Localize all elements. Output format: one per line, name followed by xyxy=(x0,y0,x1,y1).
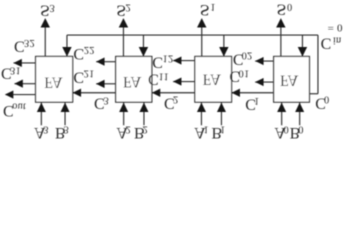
arrowhead down into U0 top xyxy=(298,47,307,56)
wire: carry output C02 of U0 xyxy=(255,60,274,62)
full adder U1 (FA box, bit 1) xyxy=(195,56,232,102)
wire: sum S2 output xyxy=(122,27,124,57)
wire: sum S1 output xyxy=(201,27,203,57)
label C0 (flipped) xyxy=(315,94,326,111)
label = 0 (flipped) xyxy=(328,22,343,34)
svg-text:02: 02 xyxy=(242,50,253,61)
wire: carry output C12 of U1 xyxy=(173,60,195,62)
arrowhead left C12 xyxy=(173,56,181,64)
label FA (flipped) inside U2 xyxy=(123,73,142,90)
label S2 (flipped) xyxy=(116,2,126,20)
wire: sum S3 output xyxy=(44,27,46,57)
label C2 (flipped) xyxy=(164,94,175,111)
label C02 (flipped) xyxy=(233,50,244,67)
wire: input A0 xyxy=(281,102,283,125)
svg-text:0: 0 xyxy=(284,124,289,135)
arrowhead up S1 xyxy=(197,18,206,27)
label B3 (flipped) xyxy=(55,124,66,141)
arrowhead left Cout xyxy=(5,90,13,98)
svg-text:C: C xyxy=(148,70,159,87)
wire: bus drop into U0 xyxy=(301,35,303,56)
wire: sum S0 output xyxy=(280,27,282,57)
svg-text:FA: FA xyxy=(123,73,142,90)
wire: carry output C01 of U0 xyxy=(255,81,274,83)
label A3 (flipped) xyxy=(34,124,46,141)
label B1 (flipped) xyxy=(211,124,222,141)
label C12 (flipped) xyxy=(152,54,163,71)
wire: carry C1 xyxy=(232,92,274,94)
arrowhead up A1 xyxy=(197,103,206,112)
arrowhead up S2 xyxy=(119,18,128,27)
label C21 (flipped) xyxy=(73,68,84,85)
arrowhead left C32 xyxy=(13,59,21,67)
svg-text:1: 1 xyxy=(220,124,225,135)
label C1 (flipped) xyxy=(245,96,256,113)
svg-text:0: 0 xyxy=(287,1,292,12)
svg-text:32: 32 xyxy=(24,37,35,48)
wire: bus drop into U2 xyxy=(142,35,144,56)
wire: input B0 xyxy=(299,102,301,125)
svg-text:C: C xyxy=(152,54,163,71)
svg-text:= 0: = 0 xyxy=(328,22,343,34)
arrowhead left C01 xyxy=(255,78,263,86)
arrowhead up B0 xyxy=(295,103,304,112)
svg-text:22: 22 xyxy=(84,44,95,55)
arrowhead left carry C1 xyxy=(232,89,240,97)
wire: carry output C32 of U3 xyxy=(13,62,35,64)
wire: input A2 xyxy=(123,102,125,125)
svg-text:1: 1 xyxy=(203,124,208,135)
svg-text:1: 1 xyxy=(210,1,215,12)
wire: Cin into U0 right edge xyxy=(309,93,318,95)
wire: input A1 xyxy=(200,102,202,125)
wire: bus left drop into U3 xyxy=(66,35,68,56)
arrowhead up S0 xyxy=(276,18,285,27)
svg-text:1: 1 xyxy=(254,95,259,106)
label C22 (flipped) xyxy=(73,45,84,62)
arrowhead left C02 xyxy=(255,57,263,65)
full adder U2 (FA box, bit 2) xyxy=(116,56,152,102)
label FA (flipped) inside U1 xyxy=(203,71,222,88)
arrowhead left C21 xyxy=(96,80,104,88)
arrowhead up A2 xyxy=(119,103,128,112)
wire: bus drop into U1 xyxy=(223,35,225,56)
full adder U3 (FA box, bit 3) xyxy=(36,56,73,102)
arrowhead down into U3 top xyxy=(62,47,71,56)
svg-text:2: 2 xyxy=(143,124,148,135)
label B0 (flipped) xyxy=(290,124,301,141)
wire: input B3 xyxy=(64,102,66,125)
wire: carry C2 xyxy=(152,92,195,94)
svg-text:11: 11 xyxy=(158,70,168,81)
svg-text:2: 2 xyxy=(125,1,130,12)
svg-text:FA: FA xyxy=(280,71,299,88)
arrowhead left C11 xyxy=(173,77,181,85)
svg-text:FA: FA xyxy=(44,74,63,91)
label C31 (flipped) xyxy=(1,65,12,82)
svg-text:3: 3 xyxy=(43,124,48,135)
svg-text:C: C xyxy=(73,68,84,85)
arrowhead up A3 xyxy=(37,103,46,112)
svg-text:3: 3 xyxy=(103,94,108,105)
arrowhead up S3 xyxy=(41,18,50,27)
wire: carry output C11 of U1 xyxy=(173,81,195,83)
svg-text:2: 2 xyxy=(173,94,178,105)
wire: carry output C21 of U2 xyxy=(96,83,116,85)
arrowhead up B1 xyxy=(217,103,226,112)
svg-text:01: 01 xyxy=(239,67,250,78)
arrowhead left C22 xyxy=(96,58,104,66)
label S0 (flipped) xyxy=(277,1,287,19)
label B2 (flipped) xyxy=(134,124,145,141)
svg-text:0: 0 xyxy=(324,94,329,105)
svg-text:2: 2 xyxy=(126,124,131,135)
label Cin (flipped) xyxy=(321,34,332,51)
arrowhead down into U1 top xyxy=(219,47,228,56)
label S3 (flipped) xyxy=(40,2,50,20)
svg-text:21: 21 xyxy=(84,68,95,79)
svg-text:S: S xyxy=(277,1,287,19)
label Cout (flipped) xyxy=(3,102,14,119)
label FA (flipped) inside U3 xyxy=(44,74,63,91)
arrowhead up B2 xyxy=(139,103,148,112)
arrowhead up B3 xyxy=(61,103,70,112)
svg-text:in: in xyxy=(333,34,342,45)
label S1 (flipped) xyxy=(200,1,210,19)
label A0 (flipped) xyxy=(274,124,286,141)
wire: carry output C31 of U3 xyxy=(14,83,35,85)
arrowhead left carry C2 xyxy=(152,89,160,97)
wire: carry output C22 of U2 xyxy=(96,61,116,63)
svg-text:C: C xyxy=(73,45,84,62)
svg-text:12: 12 xyxy=(163,53,174,64)
svg-text:31: 31 xyxy=(10,65,21,76)
wire: input B1 xyxy=(220,102,222,125)
svg-text:out: out xyxy=(12,100,26,111)
arrowhead left carry C3 xyxy=(73,89,81,97)
wire: carry-in bus horizontal xyxy=(67,34,318,36)
arrowhead up A0 xyxy=(277,103,286,112)
label FA (flipped) inside U0 xyxy=(280,71,299,88)
svg-text:FA: FA xyxy=(203,71,222,88)
wire: input A3 xyxy=(40,102,42,125)
wire: carry C3 xyxy=(73,92,116,94)
svg-text:0: 0 xyxy=(298,124,303,135)
arrowhead down into U2 top xyxy=(139,47,148,56)
label A2 (flipped) xyxy=(116,124,128,141)
wire: carry out Cout xyxy=(5,94,35,96)
label C11 (flipped) xyxy=(148,70,159,87)
svg-text:S: S xyxy=(200,1,210,19)
wire: bus right vertical (Cin) xyxy=(317,35,319,94)
svg-text:C: C xyxy=(321,34,332,51)
svg-text:3: 3 xyxy=(49,2,54,13)
wire: input B2 xyxy=(143,102,145,125)
full adder U0 (FA box, bit 0) xyxy=(274,56,310,102)
label C01 (flipped) xyxy=(229,67,240,84)
label A1 (flipped) xyxy=(194,124,206,141)
label C3 (flipped) xyxy=(94,94,105,111)
svg-text:3: 3 xyxy=(63,124,68,135)
arrowhead left C31 xyxy=(14,80,22,88)
label C32 (flipped) xyxy=(14,38,25,55)
